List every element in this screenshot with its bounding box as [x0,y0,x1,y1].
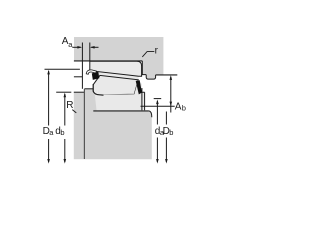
Aa arrow left (pointing right) [72,46,80,48]
housing left ring face / Aa extension line [81,43,83,89]
cage bar right (black) [136,80,142,94]
shaft shoulder top edge [74,91,85,93]
housing abutment line (Ab upper ref) [156,74,178,76]
cone front rib faces [142,88,145,110]
svg-text:b: b [169,128,173,137]
svg-text:b: b [60,128,64,137]
Ab dimension line with arrows [170,77,172,113]
housing left ring bottom edge [74,76,83,78]
housing bore line [74,60,142,62]
tapered roller [93,75,138,95]
db dimension line with arrows [64,94,66,126]
svg-text:b: b [182,103,186,112]
shaft seat line [93,110,149,112]
db tick (upper ref) [56,91,71,93]
svg-text:A: A [175,101,182,112]
shaft/spacer contact line [83,89,85,159]
housing relief groove [146,75,155,80]
shaft step at right of seat [149,111,152,117]
housing right shoulder face [142,61,146,75]
Da upper ref line [45,68,80,70]
shaft (gray block, bottom) [84,89,151,159]
shaft fillet R curve [93,91,103,95]
Db ref line (and Ab lower ref) [141,105,175,107]
svg-text:a: a [49,128,54,137]
da tick (upper ref) [154,98,162,100]
Db dimension line [165,112,167,125]
spacer ring on shaft (left) [74,92,85,159]
housing (gray block, top) [74,37,163,79]
inner ring (cone) with front rib [95,80,145,111]
bearing interior band between raceway and roller [90,71,139,80]
cone back face line [92,84,94,91]
Aa right extension: cup back face extended [89,43,91,62]
da dimension line [156,101,158,125]
cage strip small (left, above roller) [86,70,96,74]
cage bar left (black) [92,72,100,80]
Aa arrow right (pointing left) [91,46,98,48]
Da dimension line with arrows [48,71,50,126]
bearing outer ring (cup) [90,61,142,76]
